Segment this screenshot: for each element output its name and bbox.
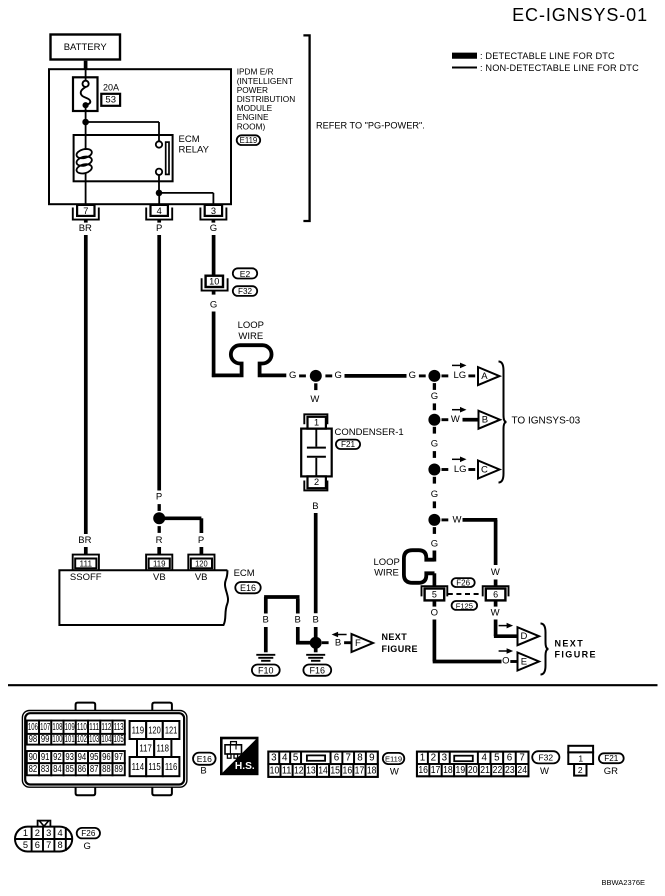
svg-text:18: 18	[367, 765, 377, 776]
E16 pins 90-97 82-89	[27, 751, 125, 775]
triangle connector A	[478, 367, 500, 385]
svg-text:2: 2	[431, 753, 436, 764]
svg-text:NEXT: NEXT	[555, 639, 585, 649]
label W below conn 6	[491, 608, 500, 619]
svg-text:12: 12	[294, 765, 304, 776]
condenser C1 body	[301, 429, 332, 477]
svg-text:6: 6	[493, 590, 498, 600]
node P junction	[153, 512, 165, 524]
svg-text:1: 1	[314, 417, 319, 427]
svg-text:E16: E16	[240, 583, 256, 593]
wire P junction to pin120	[159, 518, 201, 533]
svg-text:90: 90	[29, 752, 38, 763]
svg-text:NEXT: NEXT	[382, 632, 408, 642]
svg-text:B: B	[482, 415, 488, 426]
node fuse-output junction	[82, 119, 89, 126]
svg-text:97: 97	[114, 752, 123, 763]
svg-text:22: 22	[493, 765, 503, 776]
svg-text:117: 117	[139, 742, 152, 754]
wire dash B2	[433, 451, 436, 458]
svg-text:14: 14	[318, 765, 328, 776]
svg-text:D: D	[520, 631, 527, 642]
label ECM RELAY	[179, 134, 210, 155]
svg-text:103: 103	[89, 734, 99, 745]
svg-text:E119: E119	[240, 136, 258, 145]
wire dash node to W	[314, 383, 317, 390]
svg-text:LOOP: LOOP	[238, 320, 264, 331]
svg-text:53: 53	[105, 95, 116, 106]
svg-text:18: 18	[443, 765, 453, 776]
connector F16 oval	[303, 665, 331, 676]
wire dash O to E	[510, 660, 517, 663]
wire node to relay contact	[86, 122, 159, 142]
wire dash to column node	[419, 374, 426, 377]
wire stub below joint 10	[212, 291, 216, 295]
brace to next figure	[541, 624, 549, 675]
svg-text:3: 3	[46, 828, 51, 838]
svg-text:5: 5	[23, 840, 28, 850]
svg-text:WIRE: WIRE	[238, 331, 263, 342]
svg-text:BR: BR	[79, 223, 92, 234]
arrow row E	[499, 648, 513, 654]
svg-text:10: 10	[270, 765, 280, 776]
svg-text:H.S.: H.S.	[235, 761, 255, 772]
svg-text:G: G	[210, 223, 217, 234]
wire O to E	[433, 620, 502, 662]
svg-text:118: 118	[157, 742, 170, 754]
svg-text:FIGURE: FIGURE	[555, 650, 597, 660]
label E119 color W	[390, 766, 399, 777]
svg-text:119: 119	[153, 559, 166, 569]
svg-text:E2: E2	[240, 269, 251, 279]
svg-text:G: G	[431, 489, 438, 500]
svg-text:SSOFF: SSOFF	[70, 572, 102, 583]
svg-text:96: 96	[102, 752, 111, 763]
loop wire upper	[231, 345, 272, 377]
svg-text:16: 16	[418, 765, 428, 776]
svg-text:83: 83	[41, 764, 50, 775]
title EC-IGNSYS-01	[512, 5, 648, 25]
node column B junction	[428, 414, 440, 426]
svg-text:101: 101	[65, 734, 75, 745]
svg-text:13: 13	[306, 765, 316, 776]
svg-text:LG: LG	[453, 370, 466, 381]
svg-text:B: B	[263, 615, 269, 626]
svg-text:2: 2	[314, 477, 319, 487]
svg-text:3: 3	[211, 206, 216, 216]
arrow row A	[452, 363, 467, 369]
svg-text:: DETECTABLE LINE FOR DTC: : DETECTABLE LINE FOR DTC	[480, 51, 615, 61]
svg-text:W: W	[451, 414, 460, 425]
svg-text:FIGURE: FIGURE	[382, 644, 418, 654]
svg-text:105: 105	[114, 734, 124, 745]
wire D row to corner	[463, 520, 498, 565]
label E16 color B	[200, 765, 206, 776]
svg-text:R: R	[156, 535, 163, 546]
svg-text:P: P	[156, 492, 162, 503]
label W row D	[453, 514, 462, 525]
svg-text:120: 120	[195, 559, 208, 569]
wire BR pin7 to ECM pin111	[84, 235, 88, 534]
ECM relay box	[74, 135, 173, 181]
label B below condenser	[312, 501, 318, 512]
svg-text:6: 6	[507, 753, 513, 764]
svg-text:: NON-DETECTABLE LINE FOR DTC: : NON-DETECTABLE LINE FOR DTC	[480, 63, 639, 73]
svg-text:G: G	[431, 391, 438, 402]
wire contact to node	[158, 175, 160, 193]
E16 pins 117-118	[137, 739, 171, 757]
wire dash A2	[433, 403, 436, 410]
svg-text:85: 85	[65, 764, 74, 775]
label LG row C	[454, 464, 467, 475]
label LOOP WIRE lower	[373, 557, 399, 579]
label F32 color W	[540, 766, 549, 777]
wire to ground F10	[264, 627, 268, 652]
wire B row solid	[463, 418, 479, 422]
svg-text:VB: VB	[195, 572, 208, 583]
svg-text:108: 108	[52, 722, 62, 733]
pin 3 of IPDM	[200, 205, 226, 220]
svg-text:G: G	[289, 370, 296, 381]
svg-text:BR: BR	[78, 535, 91, 546]
wire node to pin 3	[159, 193, 213, 205]
label G col 3	[431, 489, 438, 500]
wire stub pin3	[212, 220, 216, 223]
svg-text:3: 3	[442, 753, 448, 764]
svg-text:4: 4	[58, 828, 63, 838]
condenser pin 1	[304, 414, 327, 428]
svg-text:102: 102	[77, 734, 87, 745]
svg-text:P: P	[198, 535, 204, 546]
label NEXT FIGURE left	[382, 632, 418, 654]
svg-text:104: 104	[101, 734, 111, 745]
ECM pin 120	[188, 555, 214, 571]
wire stub below conn 5	[433, 600, 437, 606]
svg-text:20: 20	[468, 765, 478, 776]
svg-text:G: G	[431, 439, 438, 450]
triangle connector E	[518, 653, 540, 671]
wire W to D triangle	[494, 620, 518, 637]
connector F26 oval	[452, 578, 475, 587]
ground F16	[306, 655, 325, 661]
wire P pin4 down	[157, 235, 161, 491]
svg-text:121: 121	[165, 724, 178, 736]
label R	[156, 535, 163, 546]
connector E16 oval	[235, 582, 260, 593]
wire dash below P junction	[158, 526, 161, 533]
svg-text:84: 84	[53, 764, 62, 775]
battery B1	[51, 35, 121, 60]
wire G down to corner	[212, 312, 240, 378]
connector E2 oval	[233, 268, 257, 279]
wire B condenser down	[314, 513, 318, 613]
svg-text:5: 5	[293, 753, 299, 764]
svg-text:CONDENSER-1: CONDENSER-1	[335, 427, 404, 438]
svg-text:RELAY: RELAY	[179, 145, 210, 156]
connector F10 oval	[252, 665, 280, 676]
connector E16 shell	[22, 703, 187, 796]
wire stub to pin111	[84, 547, 88, 555]
svg-text:16: 16	[343, 765, 353, 776]
ECM pin 119	[146, 555, 172, 571]
label W condenser	[310, 394, 319, 405]
svg-text:19: 19	[456, 765, 466, 776]
svg-text:B: B	[312, 501, 318, 512]
svg-text:119: 119	[132, 724, 145, 736]
wire dash D1	[433, 527, 436, 534]
wire loop to G	[261, 374, 286, 378]
svg-text:3: 3	[271, 753, 277, 764]
svg-text:10: 10	[209, 276, 219, 286]
svg-text:B: B	[295, 615, 301, 626]
svg-text:87: 87	[90, 764, 99, 775]
svg-text:4: 4	[282, 753, 288, 764]
wire fuse to node	[85, 105, 87, 122]
svg-text:6: 6	[334, 753, 340, 764]
wire loop to conn 5	[433, 573, 437, 586]
svg-text:EC-IGNSYS-01: EC-IGNSYS-01	[512, 5, 648, 25]
label TO IGNSYS-03	[512, 415, 581, 426]
note REFER TO PG-POWER	[316, 120, 425, 130]
label BR lower	[78, 535, 91, 546]
wire dash A row b	[468, 374, 475, 377]
svg-text:G: G	[409, 370, 416, 381]
svg-text:15: 15	[330, 765, 340, 776]
connector F32 view	[417, 752, 528, 777]
svg-text:F125: F125	[456, 601, 473, 610]
ECM relay coil	[76, 147, 93, 175]
svg-text:82: 82	[29, 764, 38, 775]
wire dash B row	[442, 418, 449, 421]
label VB 119	[153, 572, 166, 583]
svg-text:WIRE: WIRE	[374, 568, 399, 579]
svg-text:7: 7	[83, 206, 88, 216]
label P	[156, 223, 162, 234]
label G col 4	[431, 538, 438, 549]
svg-text:120: 120	[148, 724, 161, 736]
svg-text:109: 109	[65, 722, 75, 733]
svg-text:F: F	[355, 638, 361, 649]
label CONDENSER-1	[335, 427, 404, 438]
svg-text:4: 4	[481, 753, 487, 764]
arrow row D	[499, 623, 513, 629]
svg-text:G: G	[431, 538, 438, 549]
joint connector 10	[202, 276, 228, 291]
svg-text:7: 7	[346, 753, 351, 764]
wire node to relay coil	[85, 122, 87, 150]
connector E119 oval	[237, 135, 261, 145]
label VB 120	[195, 572, 208, 583]
separator line	[8, 684, 658, 686]
wire stub to loop	[433, 551, 437, 562]
wire B to ground node	[314, 627, 318, 637]
wire G to G	[345, 374, 407, 378]
wire bridge top	[264, 597, 299, 614]
svg-text:5: 5	[432, 590, 437, 600]
svg-text:G: G	[210, 299, 217, 310]
connector F21 view oval	[599, 753, 624, 763]
svg-text:114: 114	[132, 761, 145, 773]
svg-text:BBWA2376E: BBWA2376E	[602, 878, 646, 887]
wire stub pin7	[84, 220, 88, 223]
node relay-output junction	[156, 190, 163, 197]
E16 pins 119-121	[130, 721, 180, 739]
joint connector 6	[483, 586, 509, 600]
svg-text:93: 93	[65, 752, 74, 763]
svg-text:E16: E16	[197, 754, 212, 764]
label BR	[79, 223, 92, 234]
svg-text:W: W	[310, 394, 319, 405]
svg-text:G: G	[335, 370, 342, 381]
connector F125 oval	[452, 601, 478, 610]
svg-text:2: 2	[35, 828, 40, 838]
svg-text:GR: GR	[604, 766, 618, 777]
svg-text:111: 111	[80, 559, 93, 569]
svg-text:W: W	[453, 514, 462, 525]
svg-text:O: O	[431, 608, 438, 619]
label LOOP WIRE upper	[238, 320, 264, 342]
svg-text:P: P	[156, 223, 162, 234]
svg-text:2: 2	[578, 765, 583, 775]
svg-text:W: W	[540, 766, 549, 777]
label F21 color GR	[604, 766, 618, 777]
ground F10	[256, 655, 275, 661]
svg-text:8: 8	[58, 840, 63, 850]
label G right of node	[335, 370, 342, 381]
svg-text:REFER TO "PG-POWER".: REFER TO "PG-POWER".	[316, 120, 425, 130]
svg-text:98: 98	[29, 734, 38, 745]
wire stub pin4	[157, 220, 161, 223]
svg-text:89: 89	[114, 764, 123, 775]
node ground junction	[310, 637, 322, 649]
label O before E	[502, 656, 509, 667]
connector F21 view	[568, 746, 593, 776]
svg-text:110: 110	[77, 722, 87, 733]
legend non-detectable line for DTC	[452, 63, 639, 73]
label G below joint	[210, 299, 217, 310]
wire dash P	[158, 504, 161, 511]
wire dash D row	[442, 518, 449, 521]
svg-text:86: 86	[78, 764, 87, 775]
wire dash A1	[433, 383, 436, 390]
wire G pin3 to joint	[212, 235, 216, 277]
svg-text:23: 23	[505, 765, 515, 776]
svg-text:92: 92	[53, 752, 62, 763]
svg-text:W: W	[491, 608, 500, 619]
wire IPDM top to fuse	[85, 70, 87, 81]
node column C junction	[428, 464, 440, 476]
svg-text:115: 115	[148, 761, 161, 773]
wire dash B to F	[344, 641, 351, 644]
IPDM E/R box	[49, 69, 231, 204]
label ECM	[234, 568, 255, 579]
wire dash C row b	[468, 468, 475, 471]
svg-text:B: B	[313, 615, 319, 626]
arrow row C	[452, 457, 467, 463]
svg-text:F16: F16	[310, 666, 326, 676]
fuse value 20A	[103, 82, 119, 92]
svg-text:99: 99	[41, 734, 50, 745]
svg-text:111: 111	[89, 722, 99, 733]
triangle connector B	[479, 411, 501, 429]
svg-text:BATTERY: BATTERY	[64, 42, 108, 53]
svg-text:94: 94	[78, 752, 87, 763]
svg-text:TO IGNSYS-03: TO IGNSYS-03	[512, 415, 581, 426]
svg-text:17: 17	[431, 765, 441, 776]
svg-text:1: 1	[23, 828, 28, 838]
wire dash C row a	[442, 468, 449, 471]
wire dash A row a	[442, 374, 449, 377]
H.S. icon	[221, 738, 257, 774]
svg-text:1: 1	[578, 754, 583, 764]
connector E119 view	[268, 752, 377, 777]
label O below conn 5	[431, 608, 438, 619]
connector F32 oval	[233, 286, 257, 296]
ECM relay contact	[156, 141, 169, 175]
label SSOFF	[70, 572, 102, 583]
svg-text:8: 8	[357, 753, 363, 764]
svg-text:E: E	[521, 656, 527, 667]
svg-text:107: 107	[40, 722, 50, 733]
label B cond column	[313, 615, 319, 626]
wire dash C1	[433, 477, 436, 484]
svg-text:7: 7	[46, 840, 51, 850]
svg-text:VB: VB	[153, 572, 166, 583]
label LG row A	[453, 370, 466, 381]
IPDM name text	[237, 67, 296, 132]
joint connector 5	[422, 586, 448, 600]
svg-text:F32: F32	[538, 753, 553, 763]
legend detectable line for DTC	[452, 51, 615, 61]
svg-text:1: 1	[420, 753, 425, 764]
label W row B	[451, 414, 460, 425]
condenser pin 2	[304, 476, 327, 490]
svg-text:C: C	[481, 464, 488, 475]
E16 pins 114-116	[130, 757, 180, 776]
svg-text:11: 11	[282, 765, 292, 776]
svg-text:116: 116	[165, 761, 178, 773]
svg-text:91: 91	[41, 752, 50, 763]
label W above conn 6	[491, 567, 500, 578]
svg-text:100: 100	[52, 734, 62, 745]
svg-text:ECM: ECM	[234, 568, 255, 579]
svg-text:LOOP: LOOP	[373, 557, 399, 568]
pin 7 of IPDM	[73, 205, 99, 220]
code BBWA2376E	[602, 878, 646, 887]
node column A junction	[428, 370, 440, 382]
triangle connector C	[478, 461, 500, 479]
svg-text:113: 113	[114, 722, 124, 733]
connector F32 view oval	[532, 751, 559, 763]
svg-text:F26: F26	[81, 829, 96, 838]
svg-text:W: W	[390, 766, 399, 777]
label B bridge right	[295, 615, 301, 626]
svg-text:F10: F10	[258, 666, 274, 676]
triangle connector D	[518, 627, 540, 645]
svg-text:88: 88	[102, 764, 111, 775]
svg-text:B: B	[335, 637, 341, 648]
connector E16 view oval	[193, 753, 216, 765]
wire stub to ground F16	[314, 643, 318, 653]
wire stub to pin120	[200, 547, 204, 555]
svg-text:7: 7	[519, 753, 524, 764]
svg-text:106: 106	[28, 722, 38, 733]
brace to IGNSYS-03	[499, 362, 507, 483]
svg-text:112: 112	[101, 722, 111, 733]
wire dash C2	[433, 501, 436, 508]
svg-text:21: 21	[480, 765, 490, 776]
svg-text:ROOM): ROOM)	[237, 121, 266, 131]
